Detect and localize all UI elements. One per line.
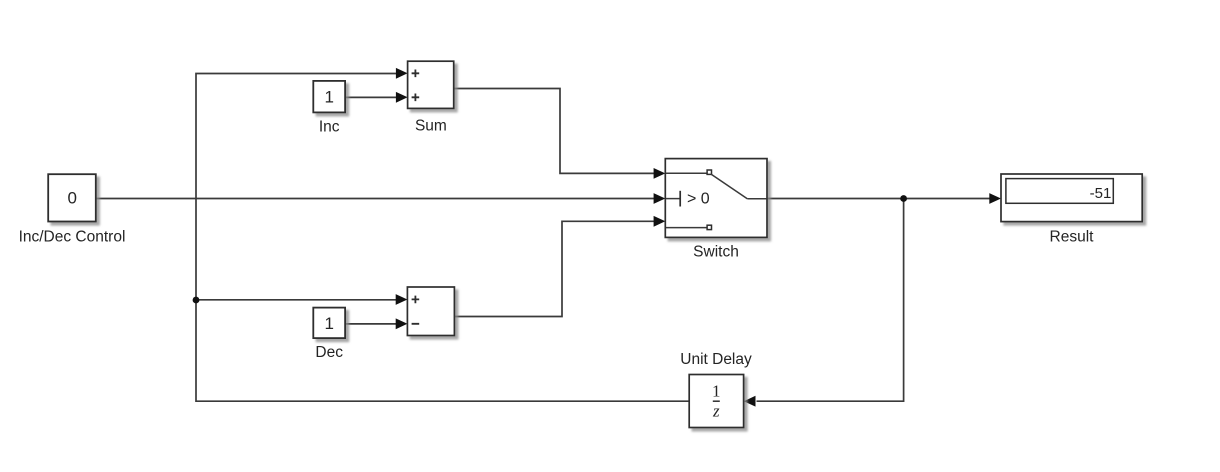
switch threshold tick — [679, 191, 681, 207]
label Inc — [319, 119, 340, 136]
switch control stub — [666, 198, 680, 200]
arrowhead sum input 1 — [396, 68, 408, 79]
unit delay block — [689, 375, 743, 428]
sum block — [408, 61, 454, 108]
svg-text:z: z — [712, 402, 720, 421]
switch inner top contact circle — [707, 170, 711, 174]
switch output stub — [747, 198, 766, 200]
switch block U Switch — [665, 159, 767, 238]
subtract block — [407, 287, 454, 336]
switch inner top throw line — [666, 172, 707, 174]
arrowhead switch control input — [654, 193, 666, 204]
label Dec — [315, 344, 343, 361]
wire: branch to subtract input 1 — [196, 299, 396, 301]
junction dot at switch output — [900, 195, 907, 202]
wire: feedback branch vertical (unit delay output net) — [196, 74, 689, 402]
svg-text:Dec: Dec — [315, 344, 343, 361]
wire: subtract output to switch input 3 — [454, 221, 654, 316]
constant block Inc — [313, 81, 345, 113]
wire: constant to switch control input — [96, 198, 655, 200]
svg-text:Sum: Sum — [415, 118, 447, 135]
junction dot at branch — [193, 297, 200, 304]
label Inc/Dec Control — [19, 229, 126, 246]
arrowhead sum input 2 — [396, 92, 408, 103]
arrowhead subtract input 2 — [396, 318, 408, 329]
svg-text:1: 1 — [712, 382, 721, 401]
label Unit Delay — [680, 351, 752, 368]
arrowhead subtract input 1 — [396, 294, 408, 305]
label Result — [1050, 229, 1095, 246]
wire: switch output down to unit delay input — [757, 199, 904, 402]
svg-text:1: 1 — [324, 88, 333, 107]
fraction bar — [713, 400, 720, 402]
arrowhead unit delay input — [744, 396, 756, 407]
svg-text:0: 0 — [67, 188, 76, 207]
svg-text:Inc: Inc — [319, 119, 340, 136]
label Switch — [693, 244, 739, 261]
wire: Inc constant to sum input 2 — [345, 96, 396, 98]
display value field — [1006, 179, 1113, 204]
switch inner bottom throw line — [666, 227, 707, 229]
arrowhead switch input 3 — [654, 216, 666, 227]
svg-text:1: 1 — [324, 314, 333, 333]
display block Result — [1001, 174, 1142, 222]
arrowhead switch input 1 — [654, 168, 666, 179]
wire: switch output to display — [767, 198, 990, 200]
wire: Dec constant to subtract input 2 — [345, 323, 396, 325]
wire: sum output to switch input 1 — [454, 89, 655, 174]
label Sum — [415, 118, 447, 135]
switch inner bottom contact circle — [707, 225, 711, 229]
svg-text:-51: -51 — [1090, 185, 1112, 202]
svg-text:Inc/Dec Control: Inc/Dec Control — [19, 229, 126, 246]
constant block Inc/Dec Control — [48, 174, 96, 221]
switch diagonal arm — [711, 174, 747, 199]
svg-text:> 0: > 0 — [687, 190, 710, 207]
arrowhead display input — [989, 193, 1001, 204]
svg-text:Switch: Switch — [693, 244, 739, 261]
svg-text:Unit Delay: Unit Delay — [680, 351, 752, 368]
svg-text:Result: Result — [1050, 229, 1095, 246]
constant block Dec — [313, 308, 345, 339]
